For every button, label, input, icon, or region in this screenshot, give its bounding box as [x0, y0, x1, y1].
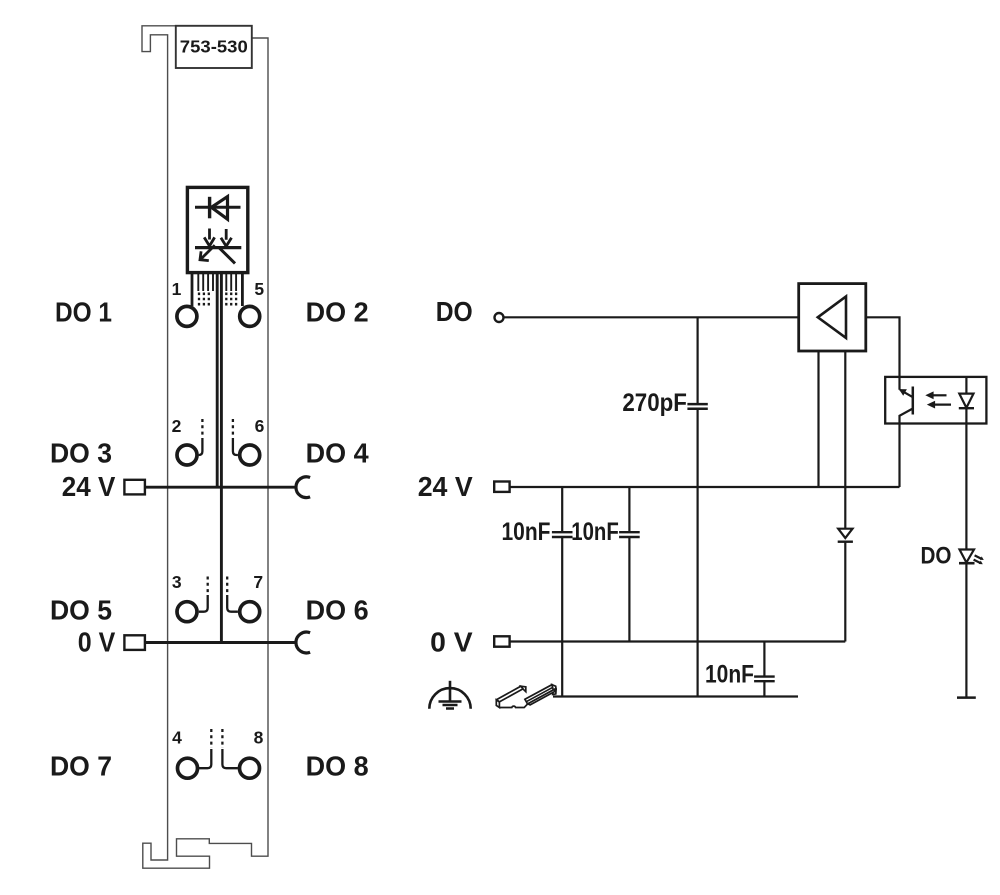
LED DO light arrow 1	[975, 555, 982, 559]
0V pad schematic	[494, 636, 509, 646]
wire ground bus	[553, 695, 798, 697]
LED DO bar	[959, 562, 975, 565]
hook terminal 2	[199, 438, 203, 455]
svg-text:DO 4: DO 4	[306, 438, 369, 469]
DIN rail left end wall	[496, 700, 499, 708]
LED left down arrow	[204, 229, 214, 247]
wire 0V rail	[510, 640, 846, 642]
svg-text:10nF: 10nF	[502, 518, 551, 546]
wire driver right leg	[844, 351, 846, 529]
24V pad schematic	[494, 482, 509, 492]
LED DO light arrow 1 head	[980, 556, 984, 560]
wire diode to 0V	[844, 542, 846, 642]
LED DO light arrow 2	[974, 560, 981, 564]
LED DO light arrow 2 head	[979, 561, 983, 565]
0V spring contact	[296, 632, 310, 653]
capacitor C2 10nF plates	[552, 532, 573, 537]
svg-text:3: 3	[172, 572, 182, 592]
diode D1 horizontal line	[195, 206, 241, 209]
dotted drop terminal 2	[201, 419, 203, 438]
wire driver left leg	[817, 351, 819, 487]
dotted drop terminal 6	[232, 419, 234, 438]
terminal 5	[240, 306, 260, 326]
0V pad module	[124, 635, 144, 650]
SCHEMATIC-PART	[494, 284, 986, 698]
terminal 4	[178, 758, 198, 778]
diode D2 triangle	[838, 529, 852, 538]
node DO input circle	[495, 313, 504, 322]
LED diagonal line	[219, 248, 235, 264]
LED right down arrow	[221, 229, 232, 246]
wire 24V rail	[510, 486, 900, 488]
module outline	[142, 26, 268, 868]
terminal 6	[240, 445, 260, 465]
hook terminal 3	[199, 595, 208, 612]
hook terminal 7	[227, 595, 238, 612]
phototransistor Q1 collector	[900, 377, 913, 397]
svg-text:10nF: 10nF	[705, 661, 754, 689]
DIN rail right flange mid stripe	[526, 687, 553, 702]
terminal 8	[240, 758, 260, 778]
svg-text:7: 7	[253, 572, 263, 592]
svg-text:DO 3: DO 3	[50, 438, 112, 469]
svg-text:6: 6	[255, 416, 265, 436]
LED DO triangle	[960, 550, 975, 563]
terminal 7	[240, 602, 260, 622]
optocoupler LED anode wire	[965, 377, 967, 394]
svg-text:5: 5	[254, 279, 264, 299]
wire DO to driver	[504, 316, 799, 318]
pin dots	[199, 293, 236, 308]
svg-text:DO 2: DO 2	[306, 297, 369, 328]
label box 753-530	[176, 26, 252, 68]
light arrow upper head	[925, 391, 933, 399]
DIN rail left flange strip	[497, 686, 524, 702]
capacitor C3 10nF plates	[619, 532, 640, 537]
svg-text:DO: DO	[921, 543, 952, 570]
svg-text:270pF: 270pF	[622, 389, 687, 417]
svg-text:DO 5: DO 5	[50, 595, 112, 626]
svg-text:24 V: 24 V	[62, 471, 116, 502]
DIN rail right under wall	[528, 689, 555, 705]
svg-text:0 V: 0 V	[78, 626, 116, 657]
svg-text:10nF: 10nF	[571, 518, 619, 546]
pin to terminal 1	[191, 273, 194, 306]
hook terminal 4	[199, 749, 212, 768]
svg-text:DO 6: DO 6	[306, 595, 369, 626]
DIN rail middle wall face	[521, 686, 526, 692]
phototransistor Q1 collector arrow	[899, 389, 907, 396]
light arrow upper	[932, 394, 947, 396]
pin to terminal 5	[241, 273, 244, 306]
DIN rail right flange strip	[525, 685, 555, 704]
capacitor C1 270pF plates	[687, 404, 707, 409]
DIN rail right end lip	[553, 689, 556, 694]
dotted drop terminal 8	[221, 729, 223, 748]
svg-text:4: 4	[172, 728, 182, 748]
bus bar 24V	[216, 273, 219, 489]
dotted drop terminal 4	[210, 729, 212, 748]
svg-text:24 V: 24 V	[418, 471, 473, 502]
svg-text:DO 7: DO 7	[50, 751, 112, 782]
ground symbol arc	[429, 688, 470, 709]
terminal 1	[177, 306, 197, 326]
light arrow lower head	[927, 401, 935, 409]
phototransistor Q1 base bar	[912, 387, 915, 415]
ground symbol bars	[439, 702, 462, 709]
svg-text:DO 8: DO 8	[306, 751, 369, 782]
svg-text:2: 2	[172, 416, 182, 436]
svg-text:DO 1: DO 1	[55, 297, 112, 328]
24V wire module	[145, 486, 296, 489]
DIN rail bottom edge with hole bump	[499, 704, 527, 707]
capacitor C4 10nF branch	[763, 642, 765, 697]
svg-text:1: 1	[172, 279, 182, 299]
optocoupler U2 box	[885, 377, 986, 424]
diode D1 cathode bar	[208, 197, 211, 219]
wire driver output	[866, 317, 900, 377]
capacitor C4 10nF plates	[754, 677, 775, 682]
light arrow lower	[934, 404, 951, 406]
LED bar	[195, 246, 241, 249]
optocoupler LED triangle	[959, 394, 973, 408]
24V pad module	[124, 480, 144, 495]
svg-text:0 V: 0 V	[430, 627, 473, 658]
dotted drop terminal 3	[207, 577, 209, 595]
svg-text:DO: DO	[436, 296, 473, 327]
driver U1 box	[799, 284, 866, 351]
24V spring contact	[296, 477, 310, 498]
optocoupler LED bar	[959, 407, 974, 409]
diode D2 bar	[838, 541, 853, 543]
diode D1 triangle	[211, 197, 227, 220]
dotted drop terminal 7	[226, 577, 228, 595]
capacitor C2 10nF branch	[561, 487, 563, 697]
hook terminal 6	[233, 438, 238, 455]
svg-text:753-530: 753-530	[180, 37, 248, 57]
bus bar 0V	[220, 273, 223, 644]
wire opto LED to DO LED	[965, 408, 967, 549]
terminal 2	[177, 445, 197, 465]
DIN rail right end cap	[552, 685, 556, 690]
terminal 3	[177, 602, 197, 622]
MODULE-PART	[142, 26, 268, 868]
capacitor C1 270pF branch	[696, 317, 698, 696]
phototransistor Q1 emitter	[900, 409, 913, 488]
ground symbol stem	[449, 681, 452, 702]
terminal bar	[957, 696, 976, 699]
driver U1 triangle	[818, 296, 846, 338]
svg-text:8: 8	[254, 728, 264, 748]
wire DO LED to terminal	[965, 563, 967, 697]
LED block box	[187, 187, 247, 272]
0V wire module	[145, 641, 296, 644]
capacitor C3 10nF branch	[628, 487, 630, 642]
LED out arrow	[200, 245, 215, 260]
thin pin comb	[198, 273, 236, 291]
hook terminal 8	[222, 749, 238, 768]
